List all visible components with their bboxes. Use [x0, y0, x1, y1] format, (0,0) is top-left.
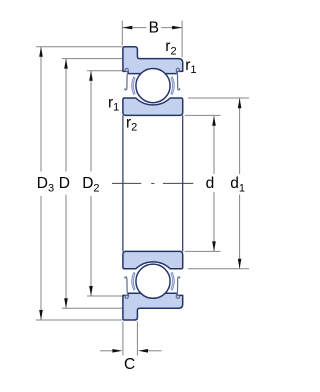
dim line D3 — [40, 47, 42, 172]
svg-text:d1: d1 — [230, 175, 245, 195]
bore line left — [122, 115, 124, 251]
bore line right — [182, 115, 184, 251]
svg-text:r2: r2 — [165, 38, 176, 58]
arrow D2 up — [89, 71, 93, 81]
arrow B right — [172, 26, 182, 30]
arrow D3 up — [39, 47, 43, 57]
ext d1 top — [188, 97, 249, 99]
arrow B left — [122, 26, 132, 30]
extension lines — [36, 21, 249, 356]
ext D3 bottom — [36, 319, 122, 321]
svg-text:d: d — [206, 175, 215, 192]
arrow d1 down — [238, 259, 242, 269]
svg-text:r1: r1 — [185, 57, 196, 76]
arrowheads — [39, 26, 241, 353]
ext B left — [121, 21, 123, 46]
ext C right — [136, 322, 138, 356]
dim line D2 — [90, 71, 92, 172]
dim line D — [65, 59, 67, 172]
svg-text:r1: r1 — [108, 95, 119, 114]
dim line d — [213, 116, 215, 174]
svg-text:B: B — [149, 19, 159, 36]
svg-text:D: D — [59, 175, 70, 192]
centerline — [112, 182, 193, 184]
ext D top — [62, 58, 122, 60]
svg-text:C: C — [124, 356, 135, 373]
bottom bearing section (mirrored) — [123, 251, 183, 320]
ext D3 top — [36, 46, 122, 48]
arrow D3 down — [39, 310, 43, 320]
ext d top — [185, 114, 221, 116]
arrow D2 down — [89, 286, 93, 296]
ext d bottom — [185, 250, 221, 252]
dim line d1 — [239, 98, 241, 174]
arrow D up — [64, 59, 68, 69]
ext D bottom — [62, 307, 122, 309]
dim line C left — [100, 350, 113, 352]
arrow C right — [138, 349, 148, 353]
ext C left — [122, 322, 124, 356]
dim line B — [122, 27, 146, 29]
dim line C right — [148, 350, 162, 352]
svg-text:D3: D3 — [37, 175, 54, 195]
ext B right — [181, 21, 183, 58]
arrow d up — [212, 116, 216, 126]
arrow C left — [112, 349, 122, 353]
svg-text:r2: r2 — [126, 115, 137, 134]
ext D2 bottom — [87, 295, 122, 297]
svg-text:D2: D2 — [82, 175, 99, 195]
arrow d1 up — [238, 98, 242, 108]
ext d1 bottom — [188, 268, 249, 270]
top bearing section — [123, 47, 183, 116]
arrow D down — [64, 298, 68, 308]
arrow d down — [212, 241, 216, 251]
ext D2 top — [87, 70, 122, 72]
